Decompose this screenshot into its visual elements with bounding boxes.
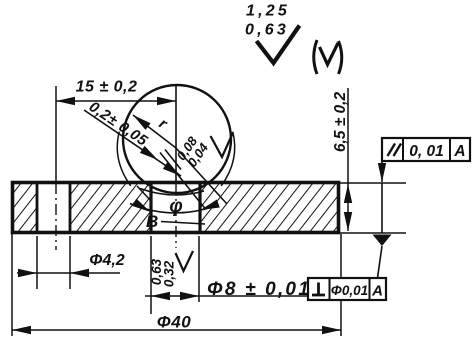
svg-text:Φ0,01: Φ0,01 (331, 283, 368, 298)
svg-text:φ: φ (169, 196, 182, 217)
svg-text:Φ40: Φ40 (157, 313, 191, 332)
svg-text:Φ4,2: Φ4,2 (89, 252, 125, 269)
svg-text:Φ8 ± 0,01: Φ8 ± 0,01 (207, 279, 311, 300)
svg-text:1,25: 1,25 (246, 3, 290, 20)
svg-text:0,63: 0,63 (245, 22, 289, 39)
svg-text:15 ± 0,2: 15 ± 0,2 (76, 79, 138, 96)
svg-text:6,5 ± 0,2: 6,5 ± 0,2 (332, 92, 349, 153)
svg-text:A: A (371, 283, 383, 300)
svg-text:0,32: 0,32 (162, 260, 177, 287)
svg-text:A: A (453, 143, 465, 160)
svg-text:0, 01: 0, 01 (409, 143, 443, 160)
svg-text:B: B (146, 212, 158, 231)
